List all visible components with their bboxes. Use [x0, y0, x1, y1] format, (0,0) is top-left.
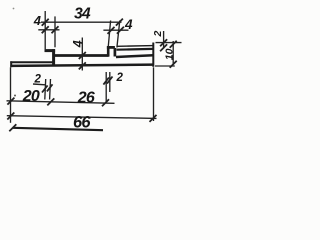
tick 66 right: [150, 115, 157, 122]
profile right end cap: [152, 43, 154, 67]
dim line 4 top-right: [103, 29, 128, 31]
svg-text:26: 26: [77, 90, 95, 107]
extension rib-left top slanted: [108, 21, 110, 47]
tick 2c top: [160, 39, 167, 46]
tick 4c bottom: [79, 62, 86, 69]
svg-text:34: 34: [74, 5, 91, 22]
tick 4a left: [42, 26, 49, 33]
profile bottom line: [10, 65, 154, 66]
extension line upstand-right top: [54, 16, 56, 47]
extension 2a left: [44, 79, 47, 100]
bottom rule line under 66: [13, 128, 103, 130]
svg-text:10: 10: [163, 48, 175, 60]
tick 66 left: [7, 113, 14, 120]
svg-text:20: 20: [22, 88, 40, 105]
svg-text:4: 4: [33, 13, 42, 28]
extension 2b left: [105, 72, 107, 104]
tick 4c top: [79, 52, 86, 59]
vertical dim line 10 right: [172, 41, 174, 65]
extension left bottom: [10, 67, 12, 123]
tick 10 bottom: [170, 61, 177, 68]
tick 2b left: [103, 78, 109, 85]
extension 2a right: [49, 79, 52, 100]
svg-text:2: 2: [33, 73, 41, 85]
profile left plate top line: [10, 61, 55, 63]
vertical dim line 4 middle: [81, 38, 83, 71]
vertical dim line 2 right: [163, 31, 165, 49]
tick 20 left: [7, 98, 14, 105]
profile right mid line: [116, 55, 153, 57]
tick 34 left: [42, 19, 49, 26]
tick 34 right: [116, 19, 123, 26]
dim line 34: [41, 21, 122, 23]
tick 4a right: [52, 26, 59, 33]
profile hook vertical: [114, 48, 117, 57]
svg-text:4: 4: [124, 17, 133, 32]
svg-text:2: 2: [115, 72, 123, 84]
right bottom horizontal extension: [155, 65, 175, 67]
dim line 66: [7, 116, 157, 119]
extension hook-right top slanted: [117, 21, 120, 48]
right horizontal extension top: [156, 42, 182, 44]
extension right bottom: [153, 67, 155, 121]
tick bottom rule left: [9, 124, 16, 131]
tick 2c bottom: [160, 44, 167, 51]
profile middle top sheet: [55, 54, 109, 57]
tick 26 right: [102, 99, 109, 106]
tick 26 left: [47, 98, 54, 105]
speckle dot top-left: [13, 8, 15, 10]
profile right top outer thin line: [117, 45, 154, 48]
svg-text:4: 4: [71, 40, 85, 48]
profile left plate end cap: [10, 61, 12, 67]
profile left flange: [45, 49, 56, 52]
profile right top inner line: [117, 48, 153, 51]
dim line 20-26: [7, 101, 115, 104]
svg-text:66: 66: [73, 113, 91, 131]
speckle dot left of 20: [14, 95, 16, 97]
tick 2a right: [47, 84, 53, 91]
extension line flange-left top: [44, 11, 46, 49]
dim line 4 top-left: [38, 29, 59, 31]
extension 2b right: [109, 72, 111, 92]
tick 4b right: [117, 27, 124, 34]
profile rib top bar: [107, 46, 115, 49]
tick 2a left: [42, 85, 48, 92]
tick 2b right: [107, 77, 113, 84]
svg-text:2: 2: [152, 31, 164, 38]
profile left upstand vertical: [52, 49, 55, 66]
dim line 2a short: [33, 83, 45, 86]
profile center step vertical: [107, 46, 110, 56]
tick 4b left: [108, 27, 115, 34]
tick 10 top: [170, 41, 177, 48]
